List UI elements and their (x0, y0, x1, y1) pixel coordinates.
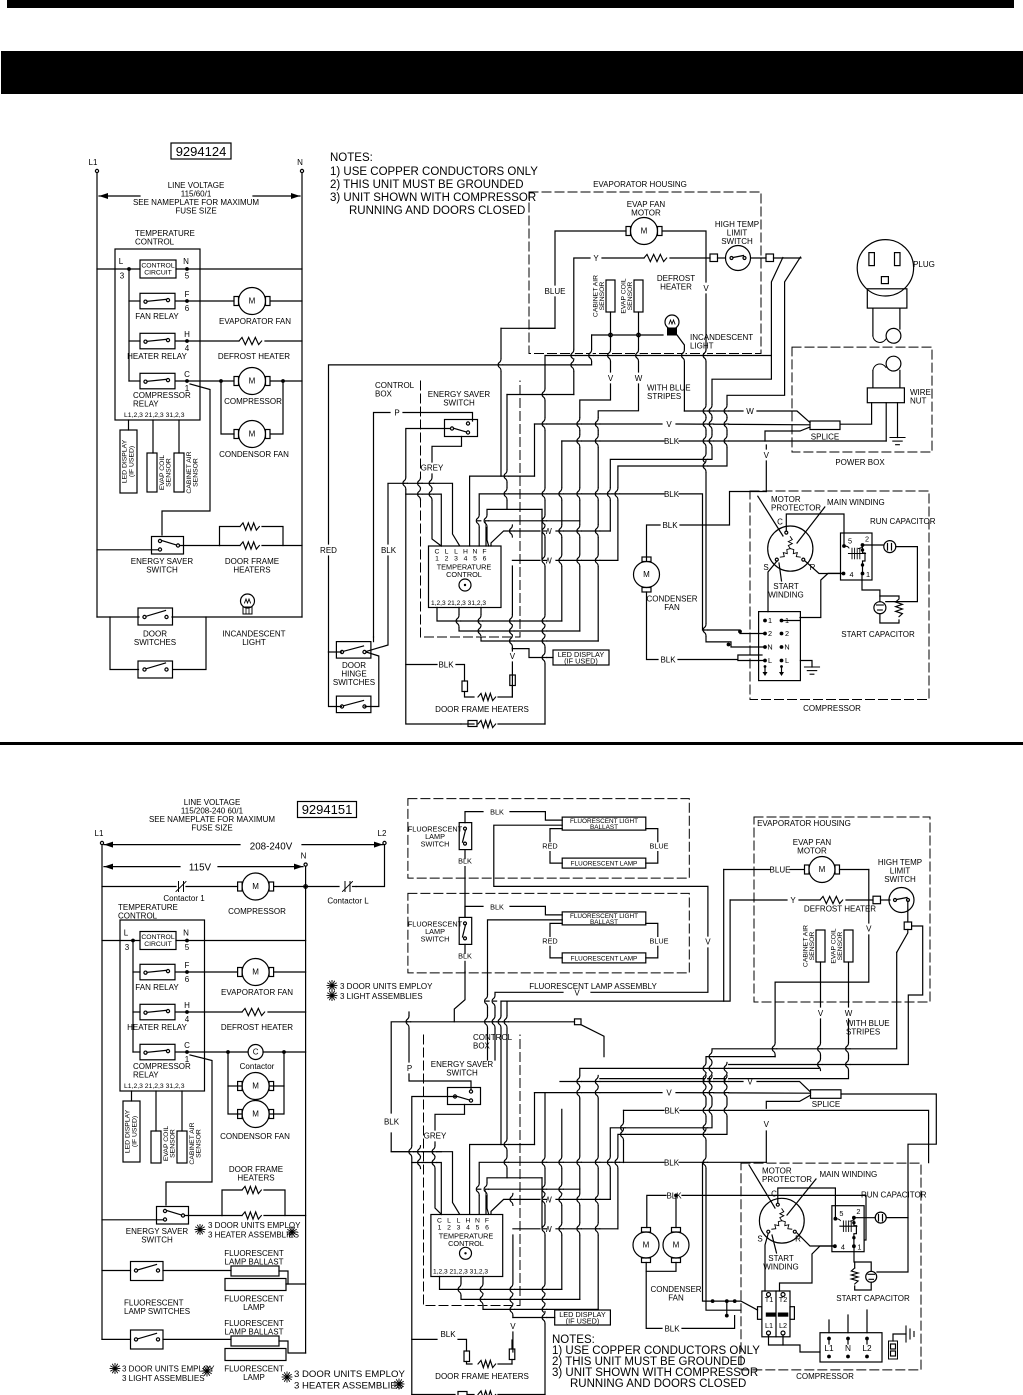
svg-text:M: M (252, 968, 259, 977)
wire: pin1 to start capacitor (862, 573, 880, 596)
cabinet air sensor (bottom housing) (816, 930, 825, 962)
svg-text:L: L (454, 549, 458, 556)
wire: led display feed (511, 566, 513, 649)
svg-text:PROTECTOR: PROTECTOR (762, 1175, 812, 1184)
svg-text:N: N (183, 929, 189, 938)
wire: block bottom to L1 N L2 box (769, 1335, 821, 1352)
wire: internal bus (bottom) (132, 941, 134, 1053)
compressor motor (239, 368, 266, 395)
svg-text:BALLAST: BALLAST (590, 919, 618, 926)
svg-text:V: V (510, 1322, 516, 1331)
wire: L1 bus to energy saver (bottom) (102, 1219, 164, 1221)
wire: switch to door frame heaters (bottom) (185, 1215, 223, 1217)
wire: P to hinge box (373, 637, 375, 642)
svg-text:S: S (763, 563, 768, 572)
evaporator housing dashed box (529, 192, 761, 354)
led display box (left) (120, 430, 137, 493)
compressor relay (140, 373, 175, 389)
wire: chain to connector diagonal (454, 1021, 574, 1023)
svg-text:EVAPORATOR HOUSING: EVAPORATOR HOUSING (593, 180, 687, 189)
wire: temp control block bottom leads (437, 608, 562, 622)
3 door units note (bottom mid) (282, 1376, 292, 1378)
svg-text:STRIPES: STRIPES (846, 1028, 880, 1037)
svg-text:L: L (768, 656, 772, 665)
wire: L2 bus (356, 845, 385, 887)
svg-text:5: 5 (185, 943, 190, 952)
wire: condenser fan bottom BLK (647, 592, 659, 660)
svg-text:F: F (485, 1218, 489, 1225)
led display box (control box) (553, 650, 609, 665)
svg-text:V: V (705, 938, 711, 947)
svg-text:2: 2 (785, 629, 789, 638)
condensor fan motor 1 (bottom) (242, 1073, 269, 1100)
svg-text:HEATERS: HEATERS (237, 1174, 274, 1183)
svg-text:1: 1 (866, 570, 870, 579)
compressor motor (bottom) (242, 873, 269, 900)
svg-text:L2: L2 (378, 829, 387, 838)
wire: L1 bus (bottom) (101, 845, 103, 1340)
wire: to led display (128, 420, 130, 430)
svg-text:START CAPACITOR: START CAPACITOR (841, 630, 915, 639)
svg-text:SENSOR: SENSOR (170, 1129, 177, 1158)
svg-text:(IF USED): (IF USED) (132, 1116, 139, 1147)
wire: compressor contactor row (102, 886, 176, 888)
compressor windings (788, 537, 792, 549)
svg-text:BLK: BLK (660, 656, 676, 665)
svg-text:RED: RED (320, 546, 337, 555)
3 door units note (bottom left) (110, 1368, 120, 1370)
svg-text:HEATER: HEATER (660, 283, 692, 292)
wire: W row mid (491, 531, 540, 546)
wire: blue feed to V row (500, 328, 502, 476)
svg-text:Y: Y (593, 254, 599, 263)
svg-text:Contactor: Contactor (240, 1062, 275, 1071)
svg-text:M: M (643, 570, 650, 579)
svg-text:M: M (252, 882, 259, 891)
svg-text:2: 2 (856, 1207, 860, 1216)
wire: BLK row 2 to terminal block (504, 493, 664, 495)
wire: BLK long row (bottom right) (624, 1109, 665, 1111)
wire: compressor relay pin 1 to energy saver switch (162, 384, 210, 535)
svg-text:N: N (475, 1218, 480, 1225)
energy saver switch (control box) (445, 420, 478, 437)
fluorescent lamp switch 1 (left) (131, 1262, 164, 1281)
wire: energy saver switch to door frame heaters (180, 545, 220, 547)
wire: compressor relay row (176, 380, 234, 382)
svg-text:V: V (764, 1120, 770, 1129)
fluorescent lamp assembly 1 dashed box (408, 799, 689, 879)
svg-text:V: V (574, 988, 580, 997)
fan relay (140, 293, 175, 309)
wire: to evap coil sensor (152, 420, 154, 453)
evap fan motor (631, 218, 658, 245)
wire: bundle junction dots (738, 630, 742, 634)
svg-text:L2: L2 (779, 1321, 787, 1330)
wire: red wire upper run to bulb rail (329, 335, 592, 544)
svg-text:F: F (482, 549, 486, 556)
connector before switch (bottom) (873, 896, 881, 904)
svg-text:FAN: FAN (668, 1294, 684, 1303)
control box partition (bottom) (424, 1035, 521, 1306)
svg-text:N: N (183, 257, 189, 266)
svg-text:N: N (297, 158, 303, 167)
svg-text:5: 5 (185, 272, 190, 281)
wire: Y defrost row (bottom) (730, 899, 787, 901)
svg-text:COMPRESSOR: COMPRESSOR (803, 704, 861, 713)
svg-text:BLK: BLK (384, 1118, 400, 1127)
svg-text:CONTROL: CONTROL (141, 263, 174, 270)
svg-text:W: W (635, 374, 643, 383)
wire: wire nut long BLK (885, 403, 887, 441)
control box dashed partition (421, 381, 521, 637)
svg-text:2: 2 (768, 629, 772, 638)
power box dashed (792, 347, 932, 452)
svg-text:L1,2,3 21,2,3 31,2,3: L1,2,3 21,2,3 31,2,3 (124, 1083, 185, 1090)
svg-text:P: P (394, 409, 399, 418)
svg-text:SENSOR: SENSOR (809, 932, 816, 961)
svg-text:208-240V: 208-240V (250, 842, 293, 853)
svg-text:COMPRESSOR: COMPRESSOR (228, 907, 286, 916)
svg-text:M: M (819, 865, 826, 874)
svg-text:V: V (866, 925, 872, 934)
svg-text:BLK: BLK (440, 1330, 456, 1339)
wire: sensor W run (bottom) (598, 1019, 848, 1309)
cabinet air sensor box (174, 453, 184, 492)
svg-text:SPLICE: SPLICE (812, 1100, 840, 1109)
svg-text:LIGHT: LIGHT (242, 638, 266, 647)
svg-text:BLK: BLK (438, 661, 454, 670)
cord into power box (873, 364, 886, 370)
wire: feed to V row 2 (bottom) (534, 1093, 536, 1145)
svg-text:4: 4 (466, 1225, 470, 1232)
svg-text:LAMP: LAMP (243, 1303, 265, 1312)
evaporator fan motor (239, 288, 266, 315)
svg-text:POWER BOX: POWER BOX (835, 458, 885, 467)
svg-text:LIGHT: LIGHT (690, 342, 714, 351)
wire: junctions into block (bottom) (713, 1300, 741, 1302)
wire: to evap coil sensor (bottom) (155, 1091, 157, 1131)
wire: P wire (bottom) (408, 1012, 410, 1062)
wire: blue return (bottom) (723, 870, 725, 1002)
svg-text:FLUORESCENT LAMP ASSEMBLY: FLUORESCENT LAMP ASSEMBLY (529, 982, 657, 991)
wire: condenser fan feed (bottom) (647, 1195, 666, 1227)
wire: BLK row left end drop (561, 441, 563, 621)
wire: housing exit y jog (507, 394, 574, 396)
wire: black wire to door frame heaters (406, 664, 437, 666)
svg-text:H: H (463, 549, 468, 556)
wire: W row mid (bottom) (491, 1199, 540, 1214)
svg-text:C: C (777, 518, 783, 527)
svg-text:BLK: BLK (490, 808, 504, 817)
wire: grey wire to temp control (432, 437, 462, 463)
svg-text:RUNNING AND DOORS CLOSED: RUNNING AND DOORS CLOSED (570, 1378, 746, 1390)
svg-text:MAIN WINDING: MAIN WINDING (827, 498, 885, 507)
svg-text:SENSOR: SENSOR (193, 458, 200, 487)
svg-text:1: 1 (768, 616, 772, 625)
fluorescent lamp (assembly 1) (562, 858, 646, 868)
svg-text:SWITCH: SWITCH (421, 840, 450, 849)
svg-text:BLK: BLK (664, 437, 680, 446)
svg-text:SENSOR: SENSOR (627, 282, 634, 311)
svg-text:SENSOR: SENSOR (599, 282, 606, 311)
led display box (bottom left) (123, 1101, 140, 1162)
svg-text:H: H (466, 1218, 471, 1225)
svg-text:Contactor L: Contactor L (327, 897, 369, 906)
wire nut (867, 388, 904, 403)
svg-text:3 DOOR UNITS EMPLOY: 3 DOOR UNITS EMPLOY (122, 1365, 215, 1374)
svg-text:MOTOR: MOTOR (631, 209, 661, 218)
evap coil sensor box (147, 453, 157, 492)
condensor fan motor 2 (bottom) (242, 1101, 269, 1128)
condenser fan motors (bottom) (633, 1232, 659, 1258)
door frame heaters (bottom diagram) (464, 1351, 470, 1362)
door hinge switch 2 (336, 696, 371, 713)
wire: condenser fan top BLK (647, 525, 661, 561)
wire: ballast to lamp (assembly 1) (550, 829, 562, 842)
splice (810, 421, 840, 430)
svg-text:(IF USED): (IF USED) (129, 446, 136, 477)
svg-text:RUNNING AND DOORS CLOSED: RUNNING AND DOORS CLOSED (349, 205, 525, 217)
condensor fan motor (239, 421, 266, 448)
wire: high temp switch output (bottom) (907, 901, 909, 922)
wire: defrost heater row (bottom) (176, 1011, 242, 1013)
wire: switch chain 3 (bottom) (618, 926, 923, 1229)
wire: 115V span (104, 866, 180, 868)
terminal block ground (800, 661, 812, 668)
svg-text:FAN RELAY: FAN RELAY (135, 312, 179, 321)
wire: hinge switch connections (329, 651, 342, 653)
svg-text:PROTECTOR: PROTECTOR (771, 504, 821, 513)
wire: C to relay (bottom) (778, 1188, 836, 1219)
wire: lamp circuit 1 (102, 1270, 131, 1272)
wire: sensor V run (580, 384, 611, 631)
crossover bumps (bottom diagram) (494, 995, 496, 1007)
wire: bulb output diagonal (677, 335, 684, 411)
svg-text:S: S (757, 1235, 762, 1244)
svg-text:2: 2 (445, 556, 449, 563)
svg-text:SWITCH: SWITCH (446, 1069, 478, 1078)
svg-text:COMPRESSOR: COMPRESSOR (224, 397, 282, 406)
door frame heaters (control box) (462, 681, 468, 692)
svg-text:V: V (510, 652, 516, 661)
svg-text:NUT: NUT (910, 397, 927, 406)
svg-text:BALLAST: BALLAST (590, 824, 618, 831)
svg-text:DOOR FRAME HEATERS: DOOR FRAME HEATERS (435, 1372, 529, 1381)
svg-text:BLK: BLK (664, 1106, 680, 1115)
wire: BLK row to compressor (bottom) (561, 1109, 563, 1289)
svg-text:SWITCHES: SWITCHES (333, 678, 375, 687)
wire: to led display (bottom) (131, 1091, 133, 1101)
start relay box (841, 533, 873, 580)
svg-text:EVAPORATOR FAN: EVAPORATOR FAN (219, 317, 291, 326)
svg-text:1,2,3 21,2,3 31,2,3: 1,2,3 21,2,3 31,2,3 (433, 1269, 488, 1276)
svg-text:3: 3 (454, 556, 458, 563)
wire: control circuit row (bottom) (102, 940, 140, 942)
fluorescent light ballast (assembly 2) (562, 912, 646, 925)
wire: contactor coil row (176, 1051, 248, 1053)
wire: S to block (bottom) (765, 1233, 768, 1291)
evaporator fan motor (bottom) (242, 959, 269, 986)
wire: temp control internal bus (128, 269, 130, 381)
wire: to cabinet air sensor (bottom) (181, 1091, 183, 1131)
wire: switch chain 2 (bottom) (610, 952, 896, 1199)
wire: control circuit row (97, 268, 140, 270)
start capacitor (874, 602, 886, 614)
svg-text:BLUE: BLUE (649, 936, 668, 945)
svg-text:2) THIS UNIT MUST BE GROUNDED: 2) THIS UNIT MUST BE GROUNDED (330, 179, 524, 191)
svg-text:C: C (184, 370, 190, 379)
svg-text:CONTROL: CONTROL (118, 912, 158, 921)
temperature control box (bottom) (120, 920, 205, 1091)
svg-text:1: 1 (435, 556, 439, 563)
svg-text:1: 1 (185, 384, 190, 393)
svg-text:V: V (608, 374, 614, 383)
svg-text:W: W (746, 407, 754, 416)
fan relay (bottom) (140, 964, 175, 980)
svg-text:RED: RED (542, 936, 557, 945)
wire: V row to splice (535, 423, 663, 425)
svg-text:W: W (845, 1009, 853, 1018)
svg-text:SWITCHES: SWITCHES (134, 638, 176, 647)
wire: evap fan motor right (663, 231, 707, 282)
svg-text:FLUORESCENT LAMP: FLUORESCENT LAMP (571, 861, 638, 868)
wire: BLK to ballast (assembly 2) (465, 906, 483, 917)
svg-text:COMPRESSOR: COMPRESSOR (796, 1372, 854, 1381)
svg-text:FLUORESCENT LAMP: FLUORESCENT LAMP (571, 955, 638, 962)
svg-text:RELAY: RELAY (133, 1071, 159, 1080)
svg-text:4: 4 (841, 1243, 845, 1252)
svg-text:LAMP BALLAST: LAMP BALLAST (225, 1328, 284, 1337)
svg-text:BLK: BLK (664, 1324, 680, 1333)
svg-text:6: 6 (185, 975, 190, 984)
3 door units employ note (mid) (327, 985, 337, 987)
svg-text:SENSOR: SENSOR (196, 1129, 203, 1158)
svg-text:SWITCH: SWITCH (146, 566, 178, 575)
svg-text:H: H (184, 330, 190, 339)
wire: Y defrost heater line (574, 258, 590, 395)
wire: 208-240V span (104, 844, 240, 846)
svg-text:SENSOR: SENSOR (166, 458, 173, 487)
svg-text:2: 2 (447, 1225, 451, 1232)
control circuit block (bottom) (140, 932, 176, 950)
wire: N bus (bottom) (305, 866, 307, 1353)
svg-text:(IF USED): (IF USED) (566, 1317, 600, 1326)
wire: evap fan row (176, 971, 238, 973)
wire: ballast to lamp (assembly 2) (550, 923, 562, 936)
svg-text:3 HEATER ASSEMBLIES: 3 HEATER ASSEMBLIES (208, 1231, 299, 1240)
wire: switch to connector right (751, 257, 766, 259)
svg-text:BLK: BLK (381, 546, 397, 555)
wire: assembly loop A (lamp 1 return) (494, 825, 708, 936)
svg-text:3: 3 (120, 272, 125, 281)
wire: door switch 2 branch (110, 617, 139, 670)
wire: BLK row 2 (bottom) (504, 1161, 664, 1163)
svg-text:HEATERS: HEATERS (233, 566, 270, 575)
svg-text:V: V (764, 451, 770, 460)
svg-text:4: 4 (185, 344, 190, 353)
wire: housing exit blue (501, 327, 555, 329)
compressor relay (bottom) (140, 1044, 175, 1060)
svg-text:FUSE SIZE: FUSE SIZE (175, 207, 216, 216)
wire: lamp circuit 2 (102, 1338, 131, 1340)
wire: protector C to relay (786, 514, 844, 546)
svg-text:N: N (784, 643, 789, 652)
evap coil sensor (bottom housing) (844, 930, 853, 962)
wire: y feed jog (506, 395, 508, 510)
door switch 2 (138, 661, 173, 678)
svg-text:L1: L1 (89, 158, 98, 167)
wire: evap motor V drop (bottom) (706, 1057, 775, 1311)
svg-text:1: 1 (438, 1225, 442, 1232)
svg-text:CONTROL: CONTROL (141, 934, 174, 941)
svg-text:L: L (447, 1218, 451, 1225)
motor protector circle (768, 526, 813, 571)
wire: splice V drop (765, 445, 767, 449)
evap fan motor (bottom) (809, 857, 835, 883)
power cord (872, 308, 874, 336)
incandescent light (housing) (665, 315, 679, 329)
terminal block T1 T2 L1 L2 (762, 1291, 790, 1337)
part number box 9294151 (298, 802, 357, 818)
wire: S to terminal block (768, 561, 777, 612)
svg-text:HEATER RELAY: HEATER RELAY (127, 1023, 187, 1032)
svg-text:L: L (785, 656, 789, 665)
part number box 9294124 (171, 143, 231, 159)
svg-text:H: H (184, 1001, 190, 1010)
svg-text:NOTES:: NOTES: (330, 152, 373, 164)
svg-text:3 DOOR UNITS EMPLOY: 3 DOOR UNITS EMPLOY (208, 1221, 301, 1230)
svg-text:F: F (185, 961, 190, 970)
header bar thick (1, 51, 1023, 94)
condenser fan motor (right) (634, 562, 660, 588)
svg-text:N: N (301, 852, 307, 861)
wire: energy saver left contact (406, 429, 461, 725)
wire: evap fan motor left (blue) (555, 231, 626, 285)
temperature control box (115, 249, 200, 420)
svg-text:FAN: FAN (664, 603, 680, 612)
svg-text:5: 5 (848, 537, 852, 546)
led display box (bottom) (555, 1310, 611, 1325)
wire: P wire (374, 413, 391, 638)
energy saver switch (bottom) (157, 1207, 189, 1225)
plug body (867, 289, 907, 308)
svg-text:L: L (457, 1218, 461, 1225)
svg-text:SWITCH: SWITCH (884, 875, 916, 884)
wire: R to pin4 (bottom) (797, 1233, 835, 1246)
svg-text:V: V (818, 1009, 824, 1018)
svg-text:V: V (666, 420, 672, 429)
svg-text:N: N (767, 643, 772, 652)
svg-text:3 LIGHT ASSEMBLIES: 3 LIGHT ASSEMBLIES (122, 1374, 205, 1383)
svg-text:LAMP: LAMP (243, 1373, 265, 1382)
evap coil sensor box (bottom) (151, 1131, 161, 1163)
svg-text:L1: L1 (95, 829, 104, 838)
svg-text:L: L (445, 549, 449, 556)
svg-text:RUN CAPACITOR: RUN CAPACITOR (861, 1191, 927, 1200)
wire: sensor drops (bottom) (820, 962, 822, 1007)
wire: y feed jog (bottom) (506, 1001, 508, 1178)
svg-text:CONDENSOR FAN: CONDENSOR FAN (219, 450, 289, 459)
wire: es switch feed (bottom) (412, 1097, 457, 1395)
wire: L1 bus to energy saver switch (97, 549, 159, 551)
svg-text:BLUE: BLUE (770, 866, 791, 875)
svg-text:4: 4 (185, 1015, 190, 1024)
svg-text:C: C (435, 549, 440, 556)
wire: BLK to door frame heaters (bottom) (412, 1338, 437, 1340)
energy saver switch (left) (152, 537, 184, 555)
svg-text:RED: RED (542, 842, 557, 851)
svg-text:BLUE: BLUE (649, 842, 668, 851)
